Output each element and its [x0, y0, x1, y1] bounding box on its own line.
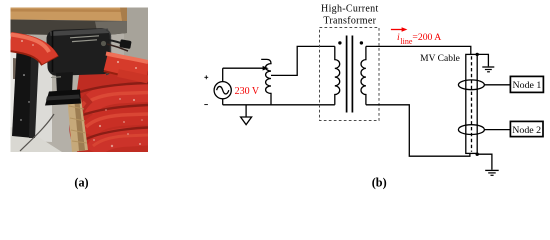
engraved label lines on CT — [70, 36, 99, 42]
coil band 3 — [88, 115, 148, 134]
tan strap — [67, 96, 88, 152]
wire secondary top to cable — [366, 46, 471, 54]
svg-text:(a): (a) — [74, 175, 88, 189]
ground (bars) top right — [477, 54, 494, 71]
svg-text:Transformer: Transformer — [323, 15, 376, 26]
MV cable sheath — [466, 54, 477, 153]
HCT primary winding — [335, 46, 340, 104]
ac source V1 — [214, 82, 231, 99]
left white wall — [11, 50, 53, 142]
transformer core — [347, 36, 353, 113]
MV cable conductor (dashed) — [471, 56, 473, 152]
polarity dot secondary — [360, 41, 363, 44]
node 2 box — [510, 121, 543, 136]
wire source bottom — [222, 99, 224, 105]
svg-text:High-Current: High-Current — [321, 4, 378, 15]
svg-text:line: line — [400, 37, 412, 46]
shadow patch below cable left — [13, 58, 32, 80]
coil band 2 — [86, 92, 148, 112]
wire secondary bottom return — [366, 105, 470, 156]
svg-text:=200 A: =200 A — [412, 32, 441, 43]
junction dot cable bottom — [476, 153, 479, 156]
wire to node 1 — [484, 84, 510, 86]
svg-text:MV Cable: MV Cable — [420, 54, 460, 64]
wire bottom rail — [223, 104, 335, 106]
paint speckles on coil — [93, 98, 143, 147]
CT connector + thin wires — [108, 40, 130, 47]
CT sensor ellipse node 2 — [458, 125, 484, 135]
floor — [11, 127, 63, 152]
coil band 4 — [94, 136, 148, 152]
svg-text:230 V: 230 V — [235, 86, 260, 97]
junction dot cable top — [476, 53, 479, 56]
wire variac to HCT primary — [271, 46, 335, 75]
ground (bars) bottom right — [477, 154, 499, 175]
polarity dot primary — [338, 41, 341, 44]
variac L1 (autotransformer winding) — [261, 59, 271, 104]
black stripe — [12, 51, 39, 138]
ground (triangle) at source — [241, 105, 252, 125]
photo (a): clamp-on current transformer on red cable — [11, 8, 149, 153]
coil left curve — [75, 98, 89, 152]
red cable exit segment — [106, 62, 148, 72]
sensor wire on floor — [20, 114, 54, 151]
CT bracket — [56, 72, 73, 94]
plus terminal mark — [204, 75, 208, 79]
red coil mass lower right — [75, 64, 148, 152]
red cable left segment — [11, 42, 51, 61]
CT clamp head — [46, 28, 112, 76]
wall right of desk — [124, 8, 148, 78]
wire wiper with arrow to variac — [223, 66, 269, 71]
under-desk shadow — [11, 20, 128, 37]
HCT dashed enclosure — [320, 28, 380, 121]
current arrow i_line (red) — [391, 27, 408, 31]
minus terminal mark — [204, 104, 208, 106]
CT sensor ellipse node 1 — [458, 80, 484, 90]
svg-text:Node 1: Node 1 — [513, 80, 542, 91]
svg-text:Node 2: Node 2 — [512, 125, 541, 136]
node 1 box — [510, 76, 543, 92]
CT foot — [45, 90, 81, 106]
desk top — [11, 8, 128, 22]
HCT secondary winding — [361, 46, 366, 104]
svg-text:(b): (b) — [372, 175, 387, 189]
wire source top — [222, 68, 224, 81]
wire to node 2 — [484, 129, 510, 131]
